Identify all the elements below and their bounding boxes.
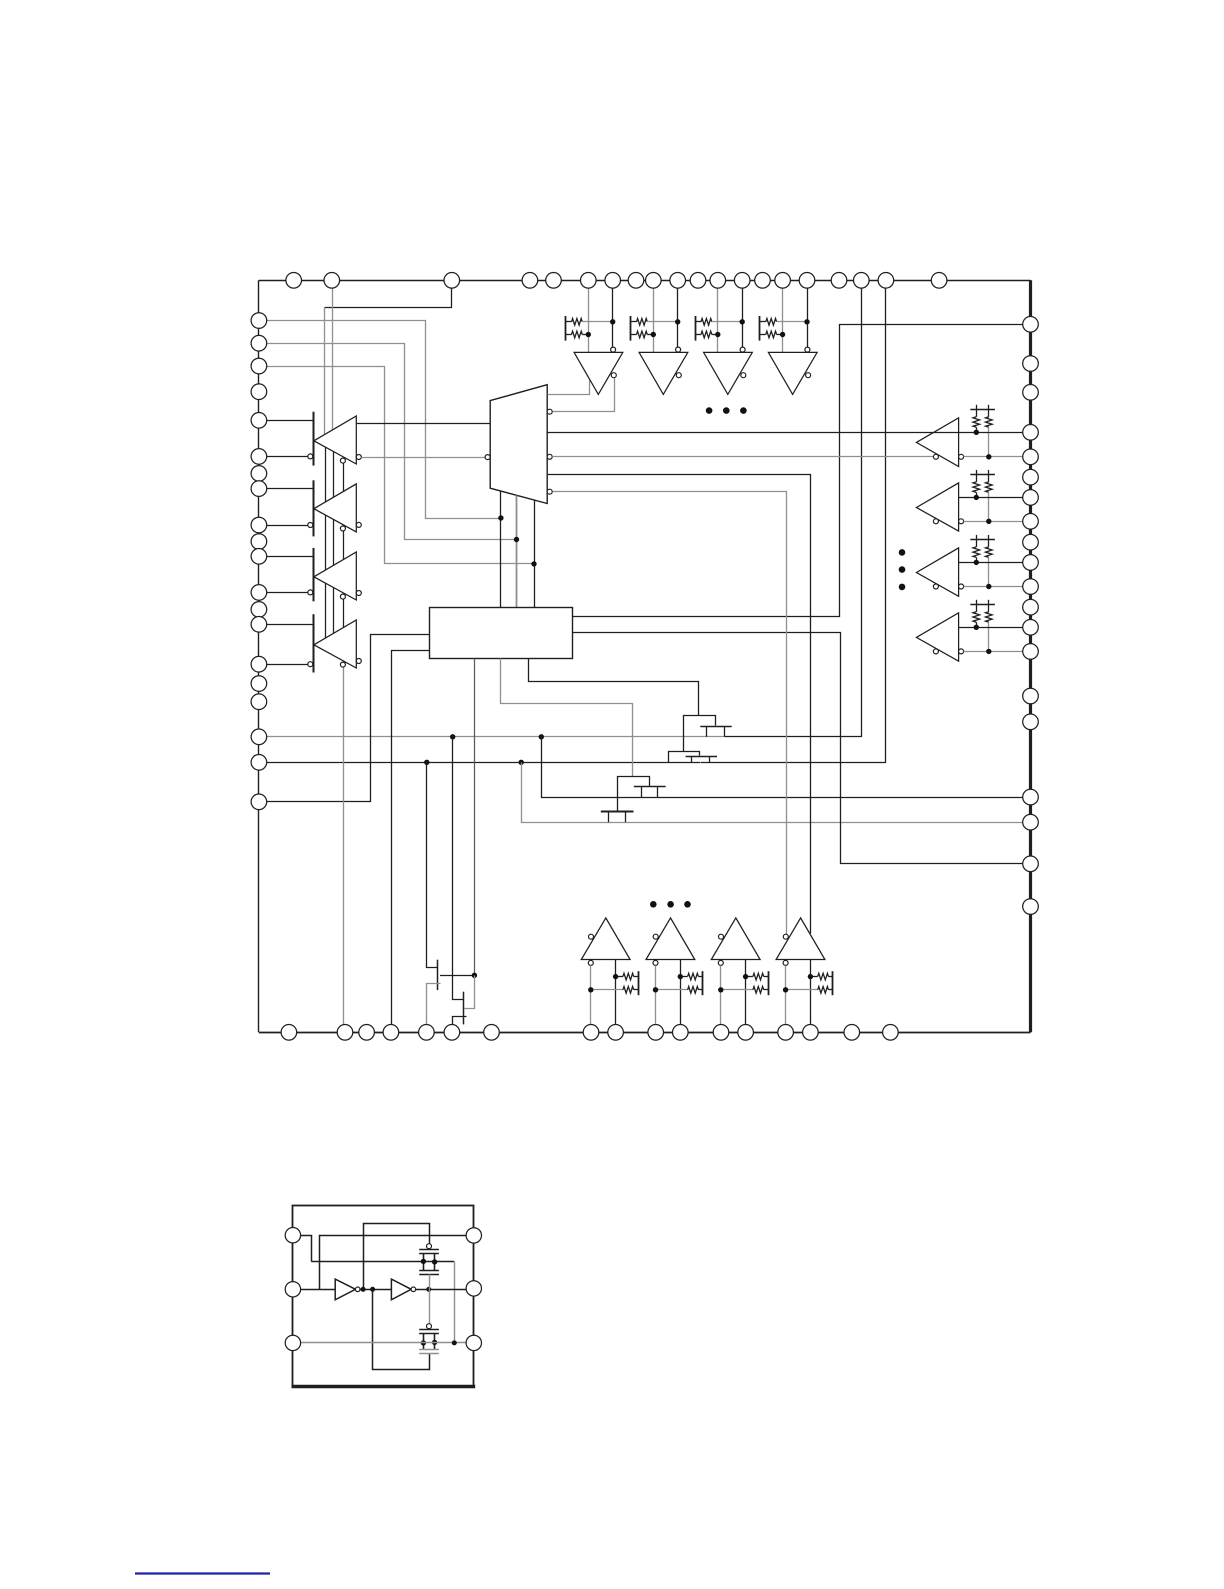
- resistor R7: [760, 321, 766, 323]
- pin top 7: [605, 273, 621, 289]
- output bubble of buffer B: [356, 522, 361, 527]
- bottom buffer P enable bubble on left slant: [719, 934, 724, 939]
- junction dot x474 drain: [472, 973, 477, 978]
- resistor R6: [695, 334, 701, 336]
- right buffer K output wire row2 to right pin: [964, 521, 1031, 523]
- select line S2 from mux to logic block: [516, 495, 518, 607]
- resistor R3: [631, 321, 637, 323]
- resistor R5: [695, 321, 701, 323]
- wire U3 output to inverter U4 input: [360, 1289, 391, 1291]
- driver transistor Q6 gate lead from W1: [453, 737, 464, 1000]
- wire U4 output to right pin2: [416, 1289, 474, 1291]
- pin right 13: [1023, 620, 1039, 636]
- transistor Q8 gate bar: [419, 1329, 439, 1331]
- transistor Q1 channel bar and contacts: [700, 726, 731, 728]
- enable chain wire from buffer D bubble down to bottom pin x345: [343, 667, 345, 1025]
- wire left pin to inverting input bubble of buffer C: [259, 592, 308, 594]
- wire U3 output down to NMOS drain: [373, 1290, 430, 1370]
- input bus bar segment 3: [313, 548, 315, 601]
- mux output wire to top buffer bank: [548, 381, 590, 395]
- driver transistor Q5 drain arm to x474: [440, 975, 474, 977]
- buffer F pullup resistor bar: [630, 316, 632, 341]
- pin top 16: [799, 273, 815, 289]
- wire from top pin x332 down to input buffer D slant: [332, 288, 334, 430]
- enable bubble of buffer G: [741, 373, 746, 378]
- junction dot resistor Ra1: [974, 430, 979, 435]
- junction dot S2: [514, 537, 519, 542]
- enable bubble of buffer B: [340, 526, 345, 531]
- output bubble of buffer C: [356, 591, 361, 596]
- resistor Rd3: [721, 989, 753, 991]
- ellipsis dots between top buffers: [706, 407, 713, 414]
- pin bottom 1: [281, 1025, 297, 1041]
- transistor Q8 source/drain legs: [423, 1333, 425, 1350]
- buffer H input wire from top pin (dark): [807, 288, 809, 347]
- bottom buffer P resistor bar: [768, 971, 770, 995]
- inverted output wire of buffer A to mux bubble input: [361, 457, 485, 459]
- pin bottom 7: [484, 1025, 500, 1041]
- transistor Q7 bottom plates: [419, 1270, 439, 1272]
- wire left pin y343 to select S2: [259, 344, 517, 540]
- pin top 2: [324, 273, 340, 289]
- input bus bar segment 2: [313, 480, 315, 536]
- buffer G input wire from top pin (gray): [717, 288, 719, 352]
- bottom buffer Q resistor bar: [832, 971, 834, 995]
- pin left 5: [251, 413, 267, 429]
- pin top 18: [854, 273, 870, 289]
- bottom buffer O (up-pointing triangle): [646, 918, 695, 960]
- pin top 11: [690, 273, 706, 289]
- bubble on bus bar for buffer A: [308, 454, 313, 459]
- wire W3 to right pin y797: [634, 797, 1031, 799]
- output buffer H (down-pointing triangle): [768, 352, 817, 394]
- junction dot rail link: [452, 1340, 457, 1345]
- pin bottom 10: [648, 1025, 664, 1041]
- pin right 16: [1023, 714, 1039, 730]
- right buffer L enable bubble on slant: [933, 584, 938, 589]
- wire Q7 bottom to Q8 gate (totem midpoint): [429, 1274, 431, 1323]
- pin right 18: [1023, 814, 1039, 830]
- enable bubble of buffer C: [340, 594, 345, 599]
- resistor Ra4: [976, 604, 978, 612]
- pin right 3: [1023, 385, 1039, 401]
- right buffer J enable bubble on slant: [933, 454, 938, 459]
- right input buffer J (left-pointing triangle): [916, 418, 958, 467]
- right buffer J output bubble row2: [959, 454, 964, 459]
- pin bottom 5: [419, 1025, 435, 1041]
- pin right 20: [1023, 899, 1039, 915]
- junction dot W1 drop x452: [450, 734, 455, 739]
- right buffer L output wire row2 to right pin: [964, 586, 1031, 588]
- right buffer L resistor top bar: [970, 539, 995, 541]
- driver transistor Q6 gate bar: [463, 992, 465, 1025]
- long bus wire W2 from left pin y762: [259, 762, 700, 764]
- transistor Q8 channel bar: [419, 1333, 439, 1335]
- bottom buffer O output wire to bottom pin: [680, 960, 682, 1025]
- sub-circuit drain rail from left pin3 to right pin3: [293, 1342, 474, 1344]
- wire left pin to input buffer C: [259, 556, 313, 558]
- pin left 15: [251, 656, 267, 672]
- transistor Q3 top bar: [618, 777, 650, 812]
- driver transistor Q5 gate lead from W2: [427, 763, 438, 968]
- buffer G input wire from top pin (dark): [742, 288, 744, 347]
- resistor Rc1: [616, 976, 623, 978]
- resistor Ra2: [976, 474, 978, 482]
- pin left 4: [251, 384, 267, 400]
- transistor Q2 channel bar and contacts: [686, 756, 717, 758]
- junction dot W2 drop x426: [424, 760, 429, 765]
- pin right 2: [1023, 356, 1039, 372]
- bus wire W2 dark segment to vertical x886: [701, 289, 886, 763]
- wire W4 to right pin y822: [608, 822, 1031, 824]
- pin top 14: [755, 273, 771, 289]
- IC body outline right border (thick): [1029, 280, 1032, 1032]
- driver transistor Q6 drain arm from x474: [465, 976, 475, 1009]
- bottom buffer N inverted output bubble under base: [588, 960, 593, 965]
- bubble on bus bar for buffer D: [308, 662, 313, 667]
- pin bottom 14: [778, 1025, 794, 1041]
- buffer E input wire from top pin (dark): [612, 288, 614, 347]
- resistor R4: [631, 334, 637, 336]
- bottom buffer N enable bubble on left slant: [589, 934, 594, 939]
- pin left 8: [251, 481, 267, 497]
- transistor Q7 channel bar: [419, 1253, 439, 1255]
- pin bottom 15: [803, 1025, 819, 1041]
- pin bottom 16: [844, 1025, 860, 1041]
- inverter U4 output bubble: [411, 1287, 416, 1292]
- right buffer L output bubble row2: [959, 584, 964, 589]
- buffer E input wire from top pin (gray): [588, 288, 590, 352]
- transistor Q7 gate bar: [419, 1249, 439, 1251]
- pin right 17: [1023, 789, 1039, 805]
- bottom buffer P (up-pointing triangle): [711, 918, 760, 960]
- IC body outline top border: [259, 280, 1031, 282]
- enable bubble of buffer H: [806, 373, 811, 378]
- sub-circuit pin right 1: [466, 1228, 481, 1243]
- transistor Q8 (lower MOSFET) gate bubble: [427, 1324, 432, 1329]
- bottom buffer Q (up-pointing triangle): [776, 918, 825, 960]
- input buffer A (left-pointing triangle): [314, 416, 356, 464]
- wire left pin to inverting input bubble of buffer D: [259, 664, 308, 666]
- logic block U2 (rectangle): [430, 608, 573, 659]
- transistor Q4 channel bar and contacts: [601, 811, 634, 813]
- resistor Rd1: [591, 989, 623, 991]
- right buffer M enable bubble on slant: [933, 649, 938, 654]
- inverting input bubble of buffer G: [740, 347, 745, 352]
- mux bubble output to bottom buffer bank enable (x786): [547, 489, 552, 494]
- buffer E pullup resistor bar: [565, 316, 567, 341]
- wire left pin y366 to select S3: [259, 367, 535, 564]
- output buffer F (down-pointing triangle): [639, 352, 688, 394]
- resistor Rd4: [786, 989, 818, 991]
- wire W1 branch down to wire W3: [542, 737, 635, 798]
- junction dot resistor Rb1: [986, 454, 991, 459]
- pin right 1: [1023, 317, 1039, 333]
- junction dot U3 output to feedback net: [370, 1287, 375, 1292]
- multiplexer MUX1 (trapezoid): [490, 385, 547, 504]
- input buffer B (left-pointing triangle): [314, 484, 356, 532]
- sub-circuit pin left 3: [285, 1335, 300, 1350]
- right buffer M output wire row1 to right pin: [959, 627, 1031, 629]
- transistor Q3 channel bar and contacts: [634, 786, 666, 788]
- pin right 15: [1023, 688, 1039, 704]
- bottom buffer Q enable bubble on left slant: [783, 934, 788, 939]
- transistor Q7 source/drain legs: [423, 1253, 425, 1270]
- inverting input bubble of buffer E: [611, 347, 616, 352]
- inverter U3 output bubble: [355, 1287, 360, 1292]
- bottom buffer N inverted output wire to bottom pin: [590, 965, 592, 1024]
- sub-circuit pin right 2: [466, 1281, 481, 1296]
- bottom buffer O enable bubble on left slant: [653, 934, 658, 939]
- right buffer L output wire row1 to right pin: [959, 562, 1031, 564]
- sub-circuit outline: [293, 1206, 474, 1387]
- pin left 18: [251, 729, 267, 745]
- bottom buffer N output wire to bottom pin: [615, 960, 617, 1025]
- resistor R8: [760, 334, 766, 336]
- chain verticals between input buffers: [325, 446, 327, 504]
- pin left 11: [251, 549, 267, 565]
- wire U3 output up to PMOS gate: [364, 1224, 430, 1290]
- pin left 19: [251, 755, 267, 771]
- pin left 16: [251, 676, 267, 692]
- right buffer K enable bubble on slant: [933, 519, 938, 524]
- pin bottom 2: [337, 1025, 353, 1041]
- driver transistor Q5 source arm to bottom pin x426: [427, 984, 441, 1025]
- right input buffer L (left-pointing triangle): [916, 548, 958, 596]
- junction dot U3 output to gate net: [361, 1287, 366, 1292]
- pin bottom 8: [583, 1025, 599, 1041]
- pin top 13: [734, 273, 750, 289]
- driver transistor Q6 source arm to bottom pin x452: [453, 1017, 467, 1025]
- pin right 12: [1023, 599, 1039, 615]
- pin top 1: [286, 273, 302, 289]
- right buffer K resistor top bar: [970, 474, 995, 476]
- logic block bottom port wire to transistor chain T3 (x501): [501, 659, 633, 777]
- resistor Rb3: [988, 539, 990, 547]
- right buffer M output wire row2 to right pin: [964, 651, 1031, 653]
- resistor Rc4: [810, 976, 817, 978]
- resistor R2: [566, 334, 572, 336]
- resistor Ra1: [976, 409, 978, 417]
- IC body outline left border: [258, 280, 260, 1032]
- junction dot S3: [531, 561, 536, 566]
- sub-circuit outline bottom edge (thick): [292, 1385, 476, 1389]
- pin right 5: [1023, 449, 1039, 465]
- junction dot W2 drop x521: [519, 760, 524, 765]
- bottom buffer P output wire to bottom pin: [745, 960, 747, 1025]
- pin left 2: [251, 335, 267, 351]
- pin left 14: [251, 617, 267, 633]
- output wire of buffer A to mux input: [356, 423, 490, 425]
- bus wire W1 dark segment to vertical x861: [725, 289, 862, 737]
- sub-circuit wire pin1 to source rail: [293, 1236, 312, 1262]
- pin top 19: [878, 273, 894, 289]
- pin right 11: [1023, 579, 1039, 595]
- buffer F input wire from top pin (dark): [677, 288, 679, 347]
- buffer F input wire from top pin (gray): [653, 288, 655, 352]
- select line S1 from mux to logic block: [500, 491, 502, 608]
- pin left 20: [251, 794, 267, 810]
- junction dot U4 output to totem midpoint: [426, 1287, 431, 1292]
- wire left pin y802 to logic block input 1: [259, 635, 430, 802]
- footer rule (blue): [135, 1572, 270, 1574]
- pin left 1: [251, 313, 267, 329]
- bottom buffer Q inverted output wire to bottom pin: [785, 965, 787, 1024]
- junction dot resistor Rb4: [986, 649, 991, 654]
- junction dot resistor Rb3: [986, 584, 991, 589]
- resistor Rb4: [988, 604, 990, 612]
- pin left 9: [251, 517, 267, 533]
- pin right 19: [1023, 856, 1039, 872]
- mux left input bubble: [485, 455, 490, 460]
- buffer H input wire from top pin (gray): [782, 288, 784, 352]
- pin top 15: [775, 273, 791, 289]
- transistor Q1 top bar: [684, 716, 716, 752]
- wire left pin to inverting input bubble of buffer B: [259, 525, 308, 527]
- pin left 3: [251, 358, 267, 374]
- logic block bottom port wire to transistor chain T1 (x528): [529, 659, 699, 716]
- input buffer C (left-pointing triangle): [314, 552, 356, 600]
- pin left 13: [251, 602, 267, 618]
- enable bubble of buffer A: [340, 458, 345, 463]
- bottom buffer Q output wire to bottom pin: [810, 960, 812, 1025]
- junction dot resistor Ra3: [974, 560, 979, 565]
- pin right 6: [1023, 469, 1039, 485]
- IC body outline bottom border: [259, 1032, 1031, 1034]
- enable bubble of buffer F: [676, 373, 681, 378]
- right buffer K output bubble row2: [959, 519, 964, 524]
- mux bubble output to right buffer bank row2: [547, 454, 552, 459]
- bottom buffer N resistor bar: [638, 971, 640, 995]
- pin top 4: [522, 273, 538, 289]
- wire right pin y324 to logic block output 1: [573, 325, 1031, 617]
- wire left pin to input buffer D: [259, 624, 313, 626]
- bottom buffer Q inverted output bubble under base: [783, 960, 788, 965]
- right buffer K output wire row1 to right pin: [959, 497, 1031, 499]
- pin top 3: [444, 273, 460, 289]
- bottom buffer P inverted output bubble under base: [718, 960, 723, 965]
- pin bottom 12: [713, 1025, 729, 1041]
- sub-circuit wire left pin2 to inverter U3 input: [293, 1289, 335, 1291]
- junction dot resistor Ra4: [974, 625, 979, 630]
- select line S3 from mux to logic block: [534, 500, 536, 608]
- pin left 10: [251, 534, 267, 550]
- input bus bar segment 1: [313, 412, 315, 466]
- wire W2 branch down to wire W4: [522, 763, 609, 823]
- pin top 17: [831, 273, 847, 289]
- resistor R1: [566, 321, 572, 323]
- enable bubble of buffer D: [340, 662, 345, 667]
- long bus wire W1 from left pin y737: [259, 736, 724, 738]
- enable bubble of buffer E: [611, 373, 616, 378]
- junction dot W1 drop x541: [539, 734, 544, 739]
- wire logic block output 2 to right pin y864: [573, 633, 1031, 864]
- sub-circuit pin left 1: [285, 1228, 300, 1243]
- wire left pin to input buffer B: [259, 488, 313, 490]
- right buffer J output wire row1 to right pin: [547, 432, 1030, 434]
- right buffer M output bubble row2: [959, 649, 964, 654]
- output bubble of buffer A: [356, 455, 361, 460]
- wire left pin to input buffer A: [259, 420, 313, 422]
- pin right 10: [1023, 555, 1039, 571]
- junction dot resistor Rb2: [986, 519, 991, 524]
- pin top 6: [581, 273, 597, 289]
- bottom buffer N (up-pointing triangle): [581, 918, 630, 960]
- pin right 4: [1023, 425, 1039, 441]
- resistor Ra3: [976, 539, 978, 547]
- pin top 10: [670, 273, 686, 289]
- bubble on bus bar for buffer C: [308, 590, 313, 595]
- right buffer J resistor top bar: [970, 409, 995, 411]
- pin top 9: [646, 273, 662, 289]
- pin right 14: [1023, 644, 1039, 660]
- inverter U4 (triangle): [391, 1279, 411, 1300]
- wire left pin y320 to select S1: [259, 321, 501, 519]
- wire logic block input 2 to bottom pin x391: [392, 651, 430, 1025]
- inverter U3 (triangle): [335, 1279, 355, 1300]
- pin top 5: [546, 273, 562, 289]
- pin left 17: [251, 694, 267, 710]
- mux bubble output to top buffer bank enable: [547, 409, 552, 414]
- pin right 8: [1023, 514, 1039, 530]
- sub-circuit pin left 2: [285, 1282, 300, 1297]
- bottom buffer O inverted output wire to bottom pin: [655, 965, 657, 1024]
- logic block bottom port wire to driver transistors (x474): [474, 659, 476, 976]
- bottom buffer O inverted output bubble under base: [653, 960, 658, 965]
- pin bottom 4: [383, 1025, 399, 1041]
- pin top 8: [628, 273, 644, 289]
- pin bottom 6: [444, 1025, 460, 1041]
- right input buffer M (left-pointing triangle): [916, 613, 958, 661]
- resistor Rd2: [656, 989, 688, 991]
- ellipsis dots between right buffers: [899, 549, 906, 556]
- pin bottom 13: [738, 1025, 754, 1041]
- pin top 12: [710, 273, 726, 289]
- sub-circuit source rail: [311, 1261, 454, 1263]
- transistor Q2 top bar: [669, 752, 700, 763]
- wire from top pin x452 down-left to node x324: [325, 289, 452, 308]
- sub-circuit pin right 3: [466, 1335, 481, 1350]
- pin bottom 9: [608, 1025, 624, 1041]
- junction dot resistor Ra2: [974, 495, 979, 500]
- output buffer E (down-pointing triangle): [574, 352, 623, 394]
- pin bottom 3: [359, 1025, 375, 1041]
- pin left 12: [251, 585, 267, 601]
- ellipsis dots between bottom buffers: [650, 901, 657, 908]
- wire left pin to inverting input bubble of buffer A: [259, 456, 308, 458]
- transistor Q7 (upper MOSFET) gate bubble: [427, 1244, 432, 1249]
- transistor Q8 bottom plates: [419, 1349, 439, 1351]
- bubble on bus bar for buffer B: [308, 523, 313, 528]
- sub-circuit rail link right side down: [454, 1261, 456, 1343]
- pin bottom 17: [883, 1025, 899, 1041]
- resistor Rb1: [988, 409, 990, 417]
- buffer G pullup resistor bar: [695, 316, 697, 341]
- inverting input bubble of buffer H: [805, 347, 810, 352]
- right buffer J output wire row2 to right pin: [964, 456, 1031, 458]
- input buffer D (left-pointing triangle): [314, 620, 356, 668]
- pin left 7: [251, 466, 267, 482]
- inverting input bubble of buffer F: [676, 347, 681, 352]
- sub-circuit wire upper-right pin to inverter input: [320, 1236, 474, 1290]
- pin right 7: [1023, 490, 1039, 506]
- resistor Rc3: [746, 976, 753, 978]
- buffer H pullup resistor bar: [759, 316, 761, 341]
- resistor Rc2: [680, 976, 687, 978]
- resistor Rb2: [988, 474, 990, 482]
- right input buffer K (left-pointing triangle): [916, 483, 958, 531]
- junction dot S1: [498, 515, 503, 520]
